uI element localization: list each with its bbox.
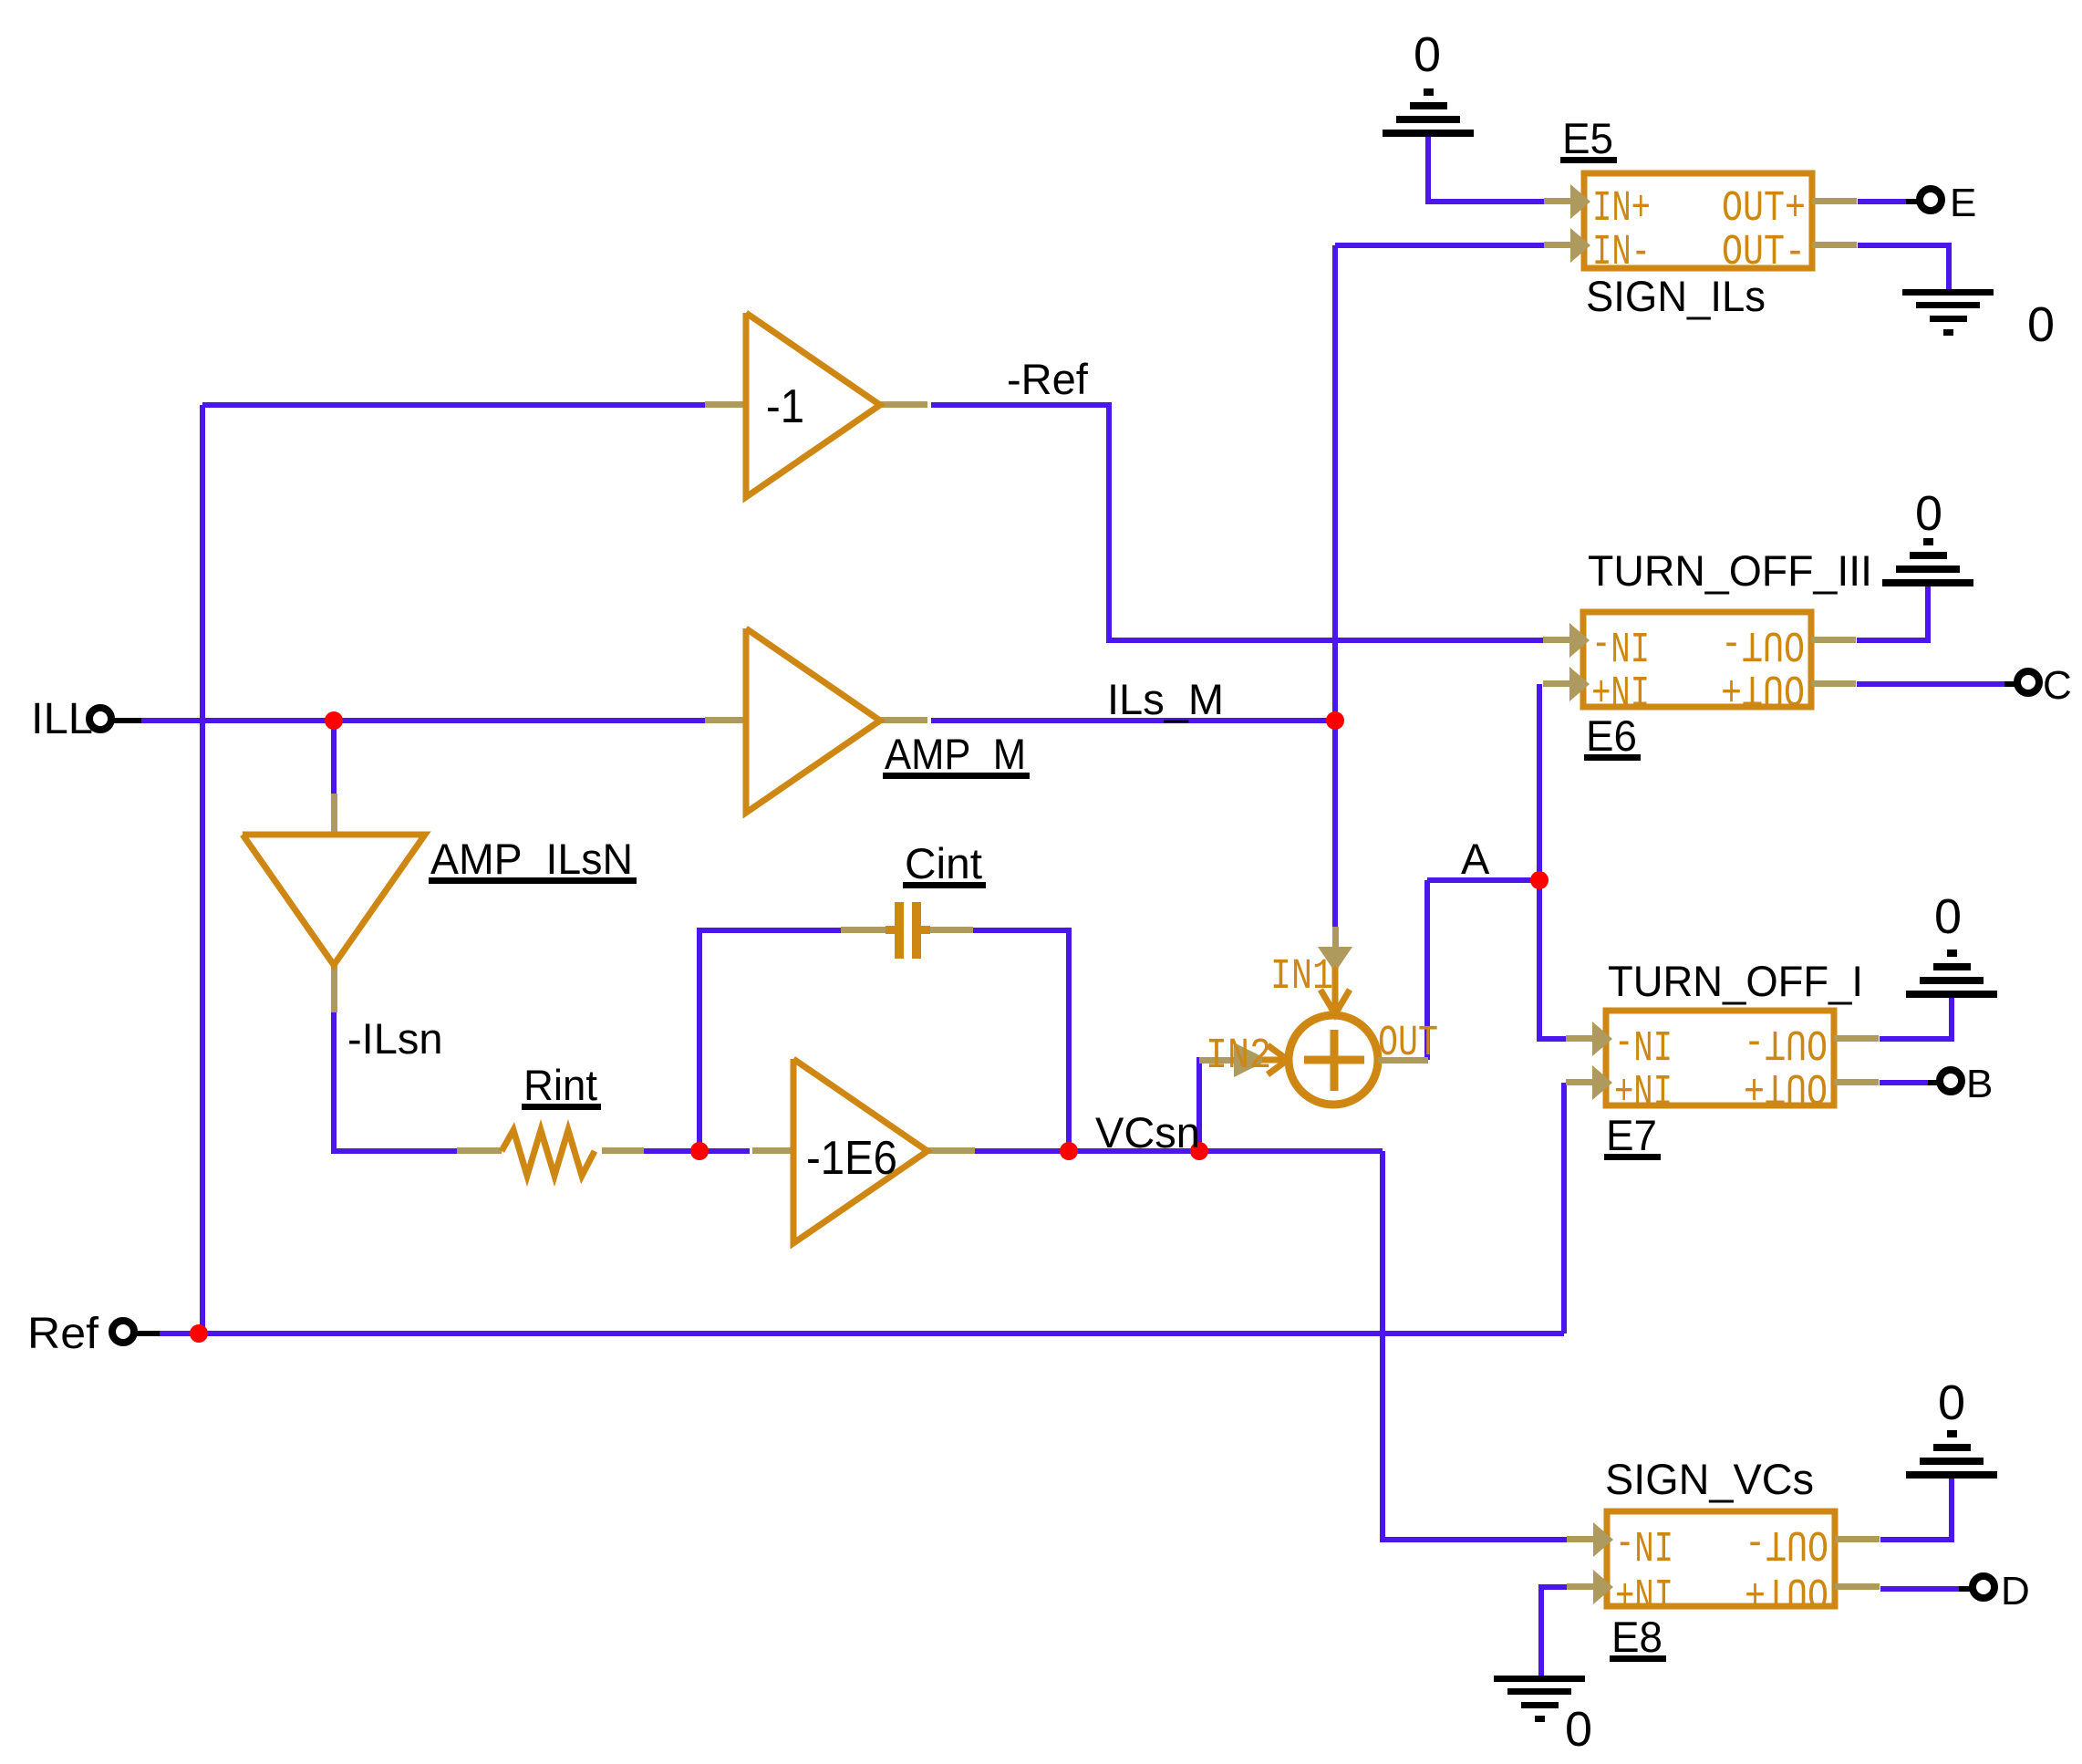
port ILL [111,718,141,723]
wire E5 OUT+ to terminal E [1858,199,1906,204]
wire E5 OUT- to ground [1858,245,1949,289]
op-amp -1 (inverter for Ref) [705,401,746,408]
E-block E6 [1583,612,1811,707]
wire VCsn run [973,1148,1383,1154]
port D [1959,1586,1973,1592]
svg-text:Cint: Cint [905,839,982,887]
op-amp AMP_M [705,717,746,723]
svg-text:0: 0 [1414,27,1441,82]
wire E7 OUT+ to terminal B [1880,1080,1928,1085]
summer (adder) symbol [1199,927,1428,1105]
op-amp AMP_ILsN (points down) [243,794,425,1012]
svg-text:SIGN_ILs: SIGN_ILs [1586,272,1766,320]
svg-text:ILs_M: ILs_M [1107,675,1224,723]
wire Ref vertical run [200,405,205,1333]
ground 0 above E7 OUT- [1906,991,1997,998]
svg-text:AMP_ILsN: AMP_ILsN [430,835,633,883]
wire Ref to E7 IN+ [1561,1083,1567,1333]
E-block E8 [1607,1511,1835,1606]
svg-text:ILL: ILL [31,695,93,743]
wire AMP_ILsN output to Rint [334,1012,457,1151]
ground 0 below E5 OUT- [1902,289,1994,296]
ground 0 above E8 OUT- [1906,1471,1997,1479]
wire E8 IN+ to ground [1541,1587,1568,1676]
svg-text:E: E [1950,181,1976,225]
wire Ref to -1 input [202,402,705,408]
E-block E5 [1584,173,1812,268]
op-amp -1E6 integrator gain [752,1147,793,1154]
svg-text:E8: E8 [1611,1613,1662,1661]
svg-text:OUT+: OUT+ [1744,1062,1828,1110]
wire E5 IN- horizontal [1335,243,1544,248]
svg-text:IN-: IN- [1591,619,1650,668]
port C [2004,681,2017,687]
svg-text:Rint: Rint [523,1061,597,1109]
wire Ref horizontal run [160,1331,1564,1336]
port E [1906,199,1920,204]
capacitor Cint [841,902,973,959]
svg-text:IN-: IN- [1592,229,1651,277]
svg-text:A: A [1461,835,1490,883]
svg-text:C: C [2043,663,2072,708]
svg-text:OUT-: OUT- [1722,229,1806,277]
svg-text:TURN_OFF_III: TURN_OFF_III [1588,546,1872,595]
port B [1928,1080,1940,1085]
svg-text:0: 0 [1565,1702,1592,1757]
node integrator input junction [690,1142,709,1160]
wire ILL input run [141,718,705,723]
node A junction [1530,871,1549,889]
svg-text:OUT: OUT [1378,1020,1438,1068]
svg-text:0: 0 [1934,889,1962,944]
port Ref [134,1331,160,1336]
ground 0 above E6 OUT- [1882,579,1973,586]
svg-text:IN+: IN+ [1592,185,1651,233]
wire ILs_M: AMP_M output run [931,718,1335,723]
svg-text:0: 0 [1915,486,1942,541]
svg-text:IN-: IN- [1615,1519,1673,1567]
wire node A vertical (E6 IN+ to E7 IN-) [1539,684,1566,1039]
svg-text:IN+: IN+ [1591,663,1650,711]
svg-text:-1E6: -1E6 [806,1132,897,1185]
wire VCsn to E8 IN- [1383,1151,1568,1540]
svg-text:IN1: IN1 [1270,953,1333,1001]
wire E6 OUT- to ground [1857,586,1928,640]
wire ILL branch to AMP_ILsN [331,721,337,794]
svg-text:E5: E5 [1562,114,1613,162]
svg-text:E6: E6 [1586,711,1637,760]
wire E7 OUT- to ground [1880,998,1952,1039]
svg-text:OUT+: OUT+ [1745,1566,1828,1614]
svg-text:B: B [1966,1062,1993,1106]
svg-text:OUT-: OUT- [1744,1018,1828,1066]
wire feedback left riser [699,930,841,1151]
ground 0 above E5 IN+ [1383,130,1474,137]
svg-text:E7: E7 [1606,1111,1657,1159]
svg-text:-1: -1 [766,380,804,433]
svg-text:AMP_M: AMP_M [885,730,1026,778]
wire VCsn to summer IN2 [1199,1060,1222,1151]
wire -Ref: -1 output to E6 IN- [931,405,1543,640]
node Ref junction [190,1324,208,1343]
svg-text:IN+: IN+ [1614,1062,1673,1110]
node ILs_M junction [1326,711,1344,730]
svg-text:TURN_OFF_I: TURN_OFF_I [1608,957,1863,1005]
wire node A horizontal [1427,877,1539,883]
wire feedback right riser [973,930,1069,1151]
svg-text:VCsn: VCsn [1095,1108,1200,1157]
ground 0 below E8 IN+ [1494,1676,1585,1682]
svg-text:Ref: Ref [27,1310,99,1358]
wire E6 OUT+ to terminal C [1857,681,2004,687]
node VCsn junction [1190,1142,1208,1160]
svg-text:OUT-: OUT- [1745,1519,1828,1567]
wire E8 OUT- to ground [1880,1479,1952,1540]
svg-text:IN2: IN2 [1206,1032,1271,1081]
svg-text:IN+: IN+ [1615,1566,1673,1614]
svg-text:SIGN_VCs: SIGN_VCs [1605,1455,1814,1503]
svg-text:OUT+: OUT+ [1722,185,1806,233]
svg-text:OUT+: OUT+ [1721,663,1805,711]
svg-text:OUT-: OUT- [1721,619,1805,668]
resistor Rint [457,1130,644,1176]
E-block E7 [1606,1011,1834,1105]
svg-text:0: 0 [1938,1375,1965,1430]
wire E8 OUT+ to terminal D [1880,1586,1959,1592]
svg-text:-Ref: -Ref [1007,355,1089,403]
wire E5 IN- vertical to summer IN1 [1332,245,1338,927]
node ILL branch junction [325,711,343,730]
svg-text:0: 0 [2027,297,2055,352]
node integrator output junction [1060,1142,1078,1160]
svg-text:D: D [2001,1569,2030,1614]
wire gnd to E5 IN+ [1428,137,1544,202]
svg-text:IN-: IN- [1614,1018,1673,1066]
wire summer OUT riser [1424,880,1430,1060]
svg-text:-ILsn: -ILsn [347,1014,443,1063]
wire Rint to -1E6 input [644,1148,750,1154]
